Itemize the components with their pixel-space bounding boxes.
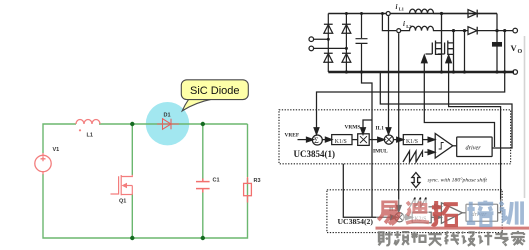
svg-text:Σ: Σ xyxy=(314,136,319,145)
svg-text:L1: L1 xyxy=(87,133,93,139)
svg-text:SiC Diode: SiC Diode xyxy=(190,85,240,97)
svg-text:C1: C1 xyxy=(213,178,220,184)
svg-text:VRMS: VRMS xyxy=(345,125,361,131)
svg-text:K1/S: K1/S xyxy=(335,139,347,145)
svg-text:IMUL: IMUL xyxy=(373,149,388,155)
svg-text:R3: R3 xyxy=(254,178,261,184)
svg-text:VREF: VREF xyxy=(285,133,300,139)
svg-text:Q1: Q1 xyxy=(119,199,126,205)
svg-text:IL1: IL1 xyxy=(376,126,385,132)
svg-text:D1: D1 xyxy=(164,113,171,119)
svg-text:i: i xyxy=(403,20,405,28)
svg-text:L1: L1 xyxy=(399,7,405,12)
svg-text:O: O xyxy=(518,49,523,55)
svg-text:i: i xyxy=(396,3,398,11)
svg-text:UC3854(2): UC3854(2) xyxy=(338,217,374,226)
svg-text:V1: V1 xyxy=(53,147,60,153)
svg-text:sync. with 180°phase shift: sync. with 180°phase shift xyxy=(428,176,488,183)
svg-text:UC3854(1): UC3854(1) xyxy=(294,149,336,159)
svg-text:K1/S: K1/S xyxy=(406,139,418,145)
svg-text:L2: L2 xyxy=(406,24,412,29)
svg-text:V: V xyxy=(511,43,518,53)
svg-text:driver: driver xyxy=(466,145,482,152)
